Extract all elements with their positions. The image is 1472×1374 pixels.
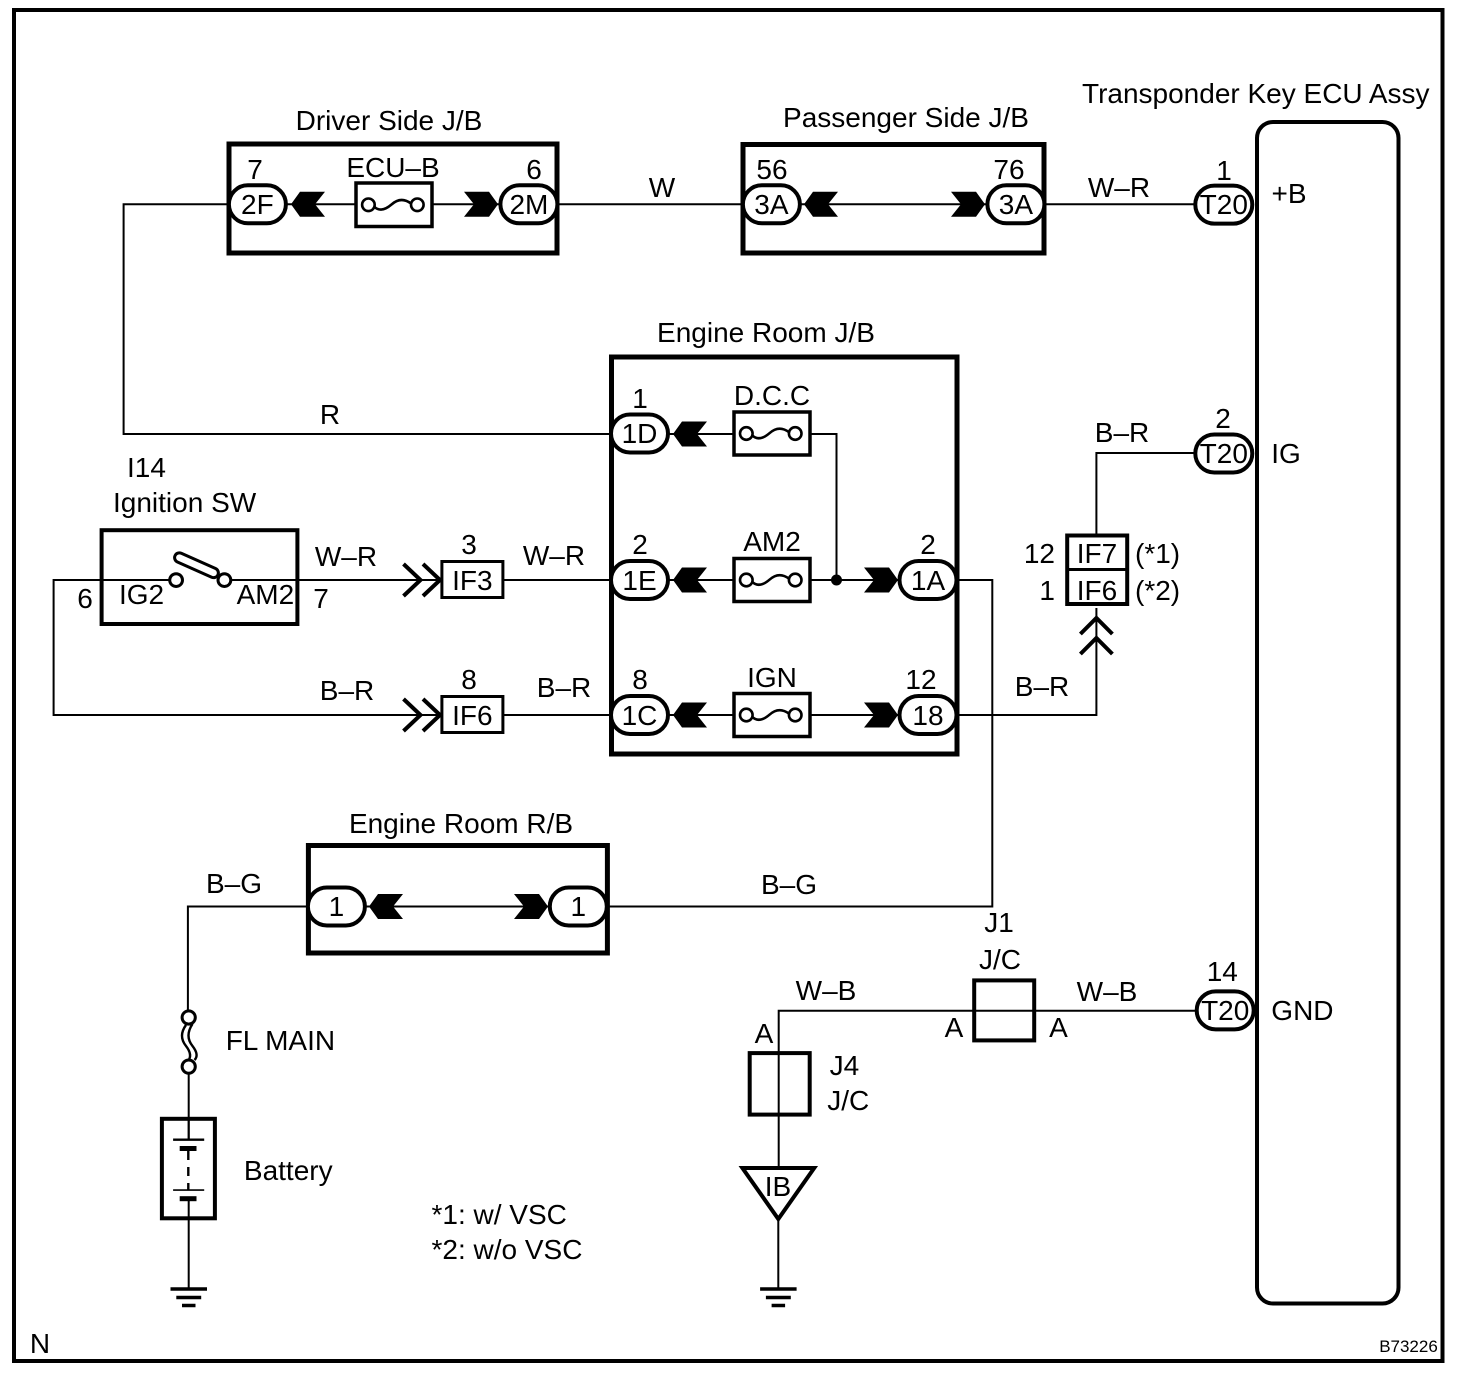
svg-text:1: 1 xyxy=(1216,155,1232,186)
label J4 xyxy=(830,1050,860,1081)
arrow into right 1 (right-pointing) xyxy=(514,894,548,919)
connector IF3 pin 3 xyxy=(442,529,503,598)
chevron arrows into IF6 xyxy=(404,699,441,731)
arrow into left 3A (left-pointing) xyxy=(804,192,838,217)
label W-B (right) xyxy=(1077,976,1138,1007)
wire: ignition IG2 down and right to 1C (net B-R) xyxy=(54,580,611,715)
note *1 w/ VSC xyxy=(432,1199,567,1230)
connector 1A pin 2 xyxy=(900,529,957,599)
label R (wire color) xyxy=(320,399,340,430)
connector 2M pin 6 xyxy=(500,154,557,223)
battery xyxy=(162,1118,333,1218)
Transponder Key ECU Assy box xyxy=(1082,78,1430,1304)
svg-text:2: 2 xyxy=(1215,403,1231,434)
svg-text:T20: T20 xyxy=(1201,995,1249,1026)
wire: ignition AM2 to 1E (net W-R) xyxy=(230,579,611,581)
connector 1 (R/B left) xyxy=(308,888,365,926)
svg-text:1: 1 xyxy=(1039,575,1055,606)
arrow into 1D (left-pointing) xyxy=(673,422,707,447)
svg-text:IB: IB xyxy=(765,1171,791,1202)
switch contact AM2 xyxy=(218,574,231,587)
svg-text:6: 6 xyxy=(77,583,93,614)
label W (wire color) xyxy=(649,172,676,203)
label B-R (after IF6) xyxy=(537,672,591,703)
pin label IG xyxy=(1271,438,1301,469)
label W-R (wire color) xyxy=(1088,172,1150,203)
svg-text:Ignition SW: Ignition SW xyxy=(113,487,257,518)
svg-text:Driver Side J/B: Driver Side J/B xyxy=(296,105,483,136)
wire: 1D to D.C.C fuse xyxy=(668,433,736,435)
svg-text:56: 56 xyxy=(756,154,787,185)
label I14 xyxy=(127,452,166,483)
svg-text:W–R: W–R xyxy=(1088,172,1150,203)
connector 1C pin 8 xyxy=(611,664,668,734)
svg-text:Battery: Battery xyxy=(244,1155,333,1186)
connector IF6 pin 8 xyxy=(442,664,503,733)
svg-text:8: 8 xyxy=(461,664,477,695)
connector 1D pin 1 xyxy=(611,383,668,453)
arrow into 1C (left-pointing) xyxy=(673,703,707,728)
svg-text:W–R: W–R xyxy=(523,540,585,571)
chevron arrows into IF3 xyxy=(404,564,441,596)
svg-text:A: A xyxy=(1049,1012,1068,1043)
connector 1E pin 2 xyxy=(611,529,668,599)
svg-text:18: 18 xyxy=(912,700,943,731)
wire: 2F to 2M through fuse ECU-B xyxy=(287,203,500,205)
svg-text:IG: IG xyxy=(1271,438,1301,469)
pin A (J4 top) xyxy=(755,1018,774,1049)
pin 6 (ignition) xyxy=(77,583,93,614)
arrow into 1E (left-pointing) xyxy=(673,568,707,593)
label W-R (before IF3) xyxy=(315,541,377,572)
svg-text:IF6: IF6 xyxy=(452,700,492,731)
svg-text:Engine Room R/B: Engine Room R/B xyxy=(349,808,573,839)
connector T20 pin 1 (+B) xyxy=(1195,155,1252,224)
svg-text:12: 12 xyxy=(905,664,936,695)
svg-text:W–B: W–B xyxy=(1077,976,1138,1007)
svg-text:3: 3 xyxy=(461,529,477,560)
switch contact IG2 xyxy=(170,574,183,587)
svg-text:(*1): (*1) xyxy=(1135,538,1180,569)
wire: D.C.C fuse to AM2 node (vertical feed) xyxy=(810,434,837,580)
connector stack IF7 (*1) / IF6 (*2) xyxy=(1067,536,1127,607)
svg-text:1D: 1D xyxy=(622,418,658,449)
svg-text:Transponder Key ECU Assy: Transponder Key ECU Assy xyxy=(1082,78,1430,109)
wire: 3A to T20 pin1 (net W-R) xyxy=(1044,203,1196,205)
wire: between R/B ovals xyxy=(366,906,550,908)
pin A (J1 left) xyxy=(945,1012,964,1043)
svg-text:2: 2 xyxy=(632,529,648,560)
pin label GND xyxy=(1271,995,1333,1026)
label IG2 xyxy=(119,579,164,610)
svg-text:B73226: B73226 xyxy=(1379,1337,1438,1356)
wire: 1C to 18 through fuse IGN xyxy=(668,714,900,716)
label B-R (18 output) xyxy=(1015,671,1069,702)
label J1 xyxy=(984,907,1014,938)
svg-text:12: 12 xyxy=(1024,538,1055,569)
svg-text:2: 2 xyxy=(920,529,936,560)
svg-text:J/C: J/C xyxy=(979,944,1021,975)
svg-text:B–G: B–G xyxy=(206,868,262,899)
arrow into 18 (right-pointing) xyxy=(864,703,898,728)
connector T20 pin 2 (IG) xyxy=(1195,403,1252,473)
Ignition SW I14 box xyxy=(102,487,298,624)
svg-text:IF7: IF7 xyxy=(1077,538,1117,569)
wire: IF7 top to T20 pin2 (net B-R) xyxy=(1096,453,1196,535)
svg-text:ECU–B: ECU–B xyxy=(346,152,439,183)
arrow into 1A (right-pointing) xyxy=(864,568,898,593)
svg-text:3A: 3A xyxy=(754,189,789,220)
wire: J4 to IB xyxy=(778,1114,780,1167)
chevron arrows into IF6/IF7 (up-pointing) xyxy=(1080,618,1112,654)
svg-text:1: 1 xyxy=(571,891,587,922)
fuse ECU-B xyxy=(346,152,439,227)
label N (page) xyxy=(30,1328,50,1359)
svg-text:I14: I14 xyxy=(127,452,166,483)
svg-text:1A: 1A xyxy=(911,565,946,596)
wire: 1A right and down to R/B (net B-G) xyxy=(607,580,992,907)
svg-text:1E: 1E xyxy=(622,565,656,596)
wire: FL MAIN to battery xyxy=(188,1073,190,1140)
svg-text:A: A xyxy=(945,1012,964,1043)
svg-text:IGN: IGN xyxy=(747,662,797,693)
connector 3A pin 56 xyxy=(743,154,800,223)
svg-text:14: 14 xyxy=(1207,956,1238,987)
wire: battery to ground xyxy=(188,1218,190,1289)
arrow into 2M (right-pointing) xyxy=(464,192,498,217)
svg-text:R: R xyxy=(320,399,340,430)
ground triangle IB xyxy=(742,1168,814,1219)
svg-text:+B: +B xyxy=(1272,178,1307,209)
note *2 w/o VSC xyxy=(432,1234,583,1265)
wire: 2M to 3A (net W) xyxy=(557,203,743,205)
switch lever xyxy=(173,551,220,579)
wire: J4 to J1 to T20 pin14 (net W-B) xyxy=(779,1011,1196,1053)
svg-text:*2: w/o VSC: *2: w/o VSC xyxy=(432,1234,583,1265)
svg-text:B–R: B–R xyxy=(320,675,374,706)
svg-text:3A: 3A xyxy=(999,189,1034,220)
svg-text:IF3: IF3 xyxy=(452,565,492,596)
svg-text:7: 7 xyxy=(247,154,263,185)
svg-text:*1: w/ VSC: *1: w/ VSC xyxy=(432,1199,567,1230)
fuse D.C.C xyxy=(734,380,810,455)
connector 1 (R/B right) xyxy=(550,888,607,926)
label AM2 (switch) xyxy=(237,579,295,610)
label (*2) xyxy=(1135,575,1180,606)
pin label +B xyxy=(1272,178,1307,209)
junction connector J4 J/C xyxy=(750,1053,810,1115)
svg-text:FL MAIN: FL MAIN xyxy=(226,1025,335,1056)
svg-text:AM2: AM2 xyxy=(743,526,801,557)
fuse IGN xyxy=(734,662,810,737)
Engine Room R/B box xyxy=(308,808,607,953)
svg-text:(*2): (*2) xyxy=(1135,575,1180,606)
svg-text:6: 6 xyxy=(526,154,542,185)
svg-text:B–R: B–R xyxy=(1015,671,1069,702)
arrow into left 1 (left-pointing) xyxy=(369,894,403,919)
label B73226 (figure number) xyxy=(1379,1337,1438,1356)
svg-text:IG2: IG2 xyxy=(119,579,164,610)
wire: IB to ground xyxy=(777,1219,779,1289)
svg-text:W–B: W–B xyxy=(796,975,857,1006)
svg-text:1C: 1C xyxy=(622,700,658,731)
pin 7 (ignition) xyxy=(313,583,329,614)
ground (IB) xyxy=(760,1289,797,1306)
fusible link FL MAIN xyxy=(182,1011,335,1073)
arrow into 2F (left-pointing) xyxy=(291,192,325,217)
label B-G (left of R/B) xyxy=(206,868,262,899)
arrow into right 3A (right-pointing) xyxy=(951,192,985,217)
label J/C (J4) xyxy=(827,1085,869,1116)
svg-text:7: 7 xyxy=(313,583,329,614)
svg-text:2M: 2M xyxy=(509,189,548,220)
wire: R/B left oval to FL MAIN (net B-G) xyxy=(188,907,308,1013)
ground (battery) xyxy=(171,1289,208,1306)
wire: 18 to IF6 bottom (net B-R) xyxy=(957,608,1096,715)
svg-text:B–R: B–R xyxy=(1095,417,1149,448)
fuse AM2 xyxy=(734,526,810,602)
svg-text:T20: T20 xyxy=(1200,438,1248,469)
junction dot at AM2 output node xyxy=(831,575,842,586)
svg-text:B–G: B–G xyxy=(761,869,817,900)
wire: 3A to 3A inside Passenger J/B xyxy=(801,203,987,205)
svg-text:T20: T20 xyxy=(1200,189,1248,220)
Engine Room J/B box xyxy=(612,317,958,754)
connector 18 pin 12 xyxy=(900,664,957,734)
svg-text:A: A xyxy=(755,1018,774,1049)
label (*1) xyxy=(1135,538,1180,569)
svg-text:1: 1 xyxy=(632,383,648,414)
pin 12 (IF7) xyxy=(1024,538,1055,569)
svg-text:W: W xyxy=(649,172,676,203)
label B-R (before IF6) xyxy=(320,675,374,706)
wire: 1E to 1A through fuse AM2 xyxy=(668,579,900,581)
connector T20 pin 14 (GND) xyxy=(1197,956,1254,1029)
svg-text:J1: J1 xyxy=(984,907,1014,938)
Passenger Side J/B box xyxy=(743,102,1044,253)
svg-text:IF6: IF6 xyxy=(1077,575,1117,606)
svg-text:76: 76 xyxy=(993,154,1024,185)
pin A (J1 right) xyxy=(1049,1012,1068,1043)
label B-G (right of R/B) xyxy=(761,869,817,900)
connector 2F pin 7 xyxy=(229,154,286,223)
label B-R (to IG) xyxy=(1095,417,1149,448)
svg-text:W–R: W–R xyxy=(315,541,377,572)
wire: 2F to R corner (net R, left vertical) xyxy=(124,204,609,434)
svg-text:D.C.C: D.C.C xyxy=(734,380,810,411)
svg-text:2F: 2F xyxy=(241,189,274,220)
svg-text:8: 8 xyxy=(632,664,648,695)
svg-text:B–R: B–R xyxy=(537,672,591,703)
junction connector J1 J/C xyxy=(974,944,1034,1040)
svg-text:GND: GND xyxy=(1271,995,1333,1026)
svg-text:Passenger Side J/B: Passenger Side J/B xyxy=(783,102,1029,133)
svg-text:N: N xyxy=(30,1328,50,1359)
label W-R (after IF3) xyxy=(523,540,585,571)
svg-text:1: 1 xyxy=(329,891,345,922)
svg-text:AM2: AM2 xyxy=(237,579,295,610)
svg-text:J4: J4 xyxy=(830,1050,860,1081)
pin 1 (IF6) xyxy=(1039,575,1055,606)
Driver Side J/B box xyxy=(229,105,557,253)
connector 3A pin 76 xyxy=(987,154,1044,223)
svg-text:Engine Room J/B: Engine Room J/B xyxy=(657,317,875,348)
label W-B (left) xyxy=(796,975,857,1006)
svg-text:J/C: J/C xyxy=(827,1085,869,1116)
